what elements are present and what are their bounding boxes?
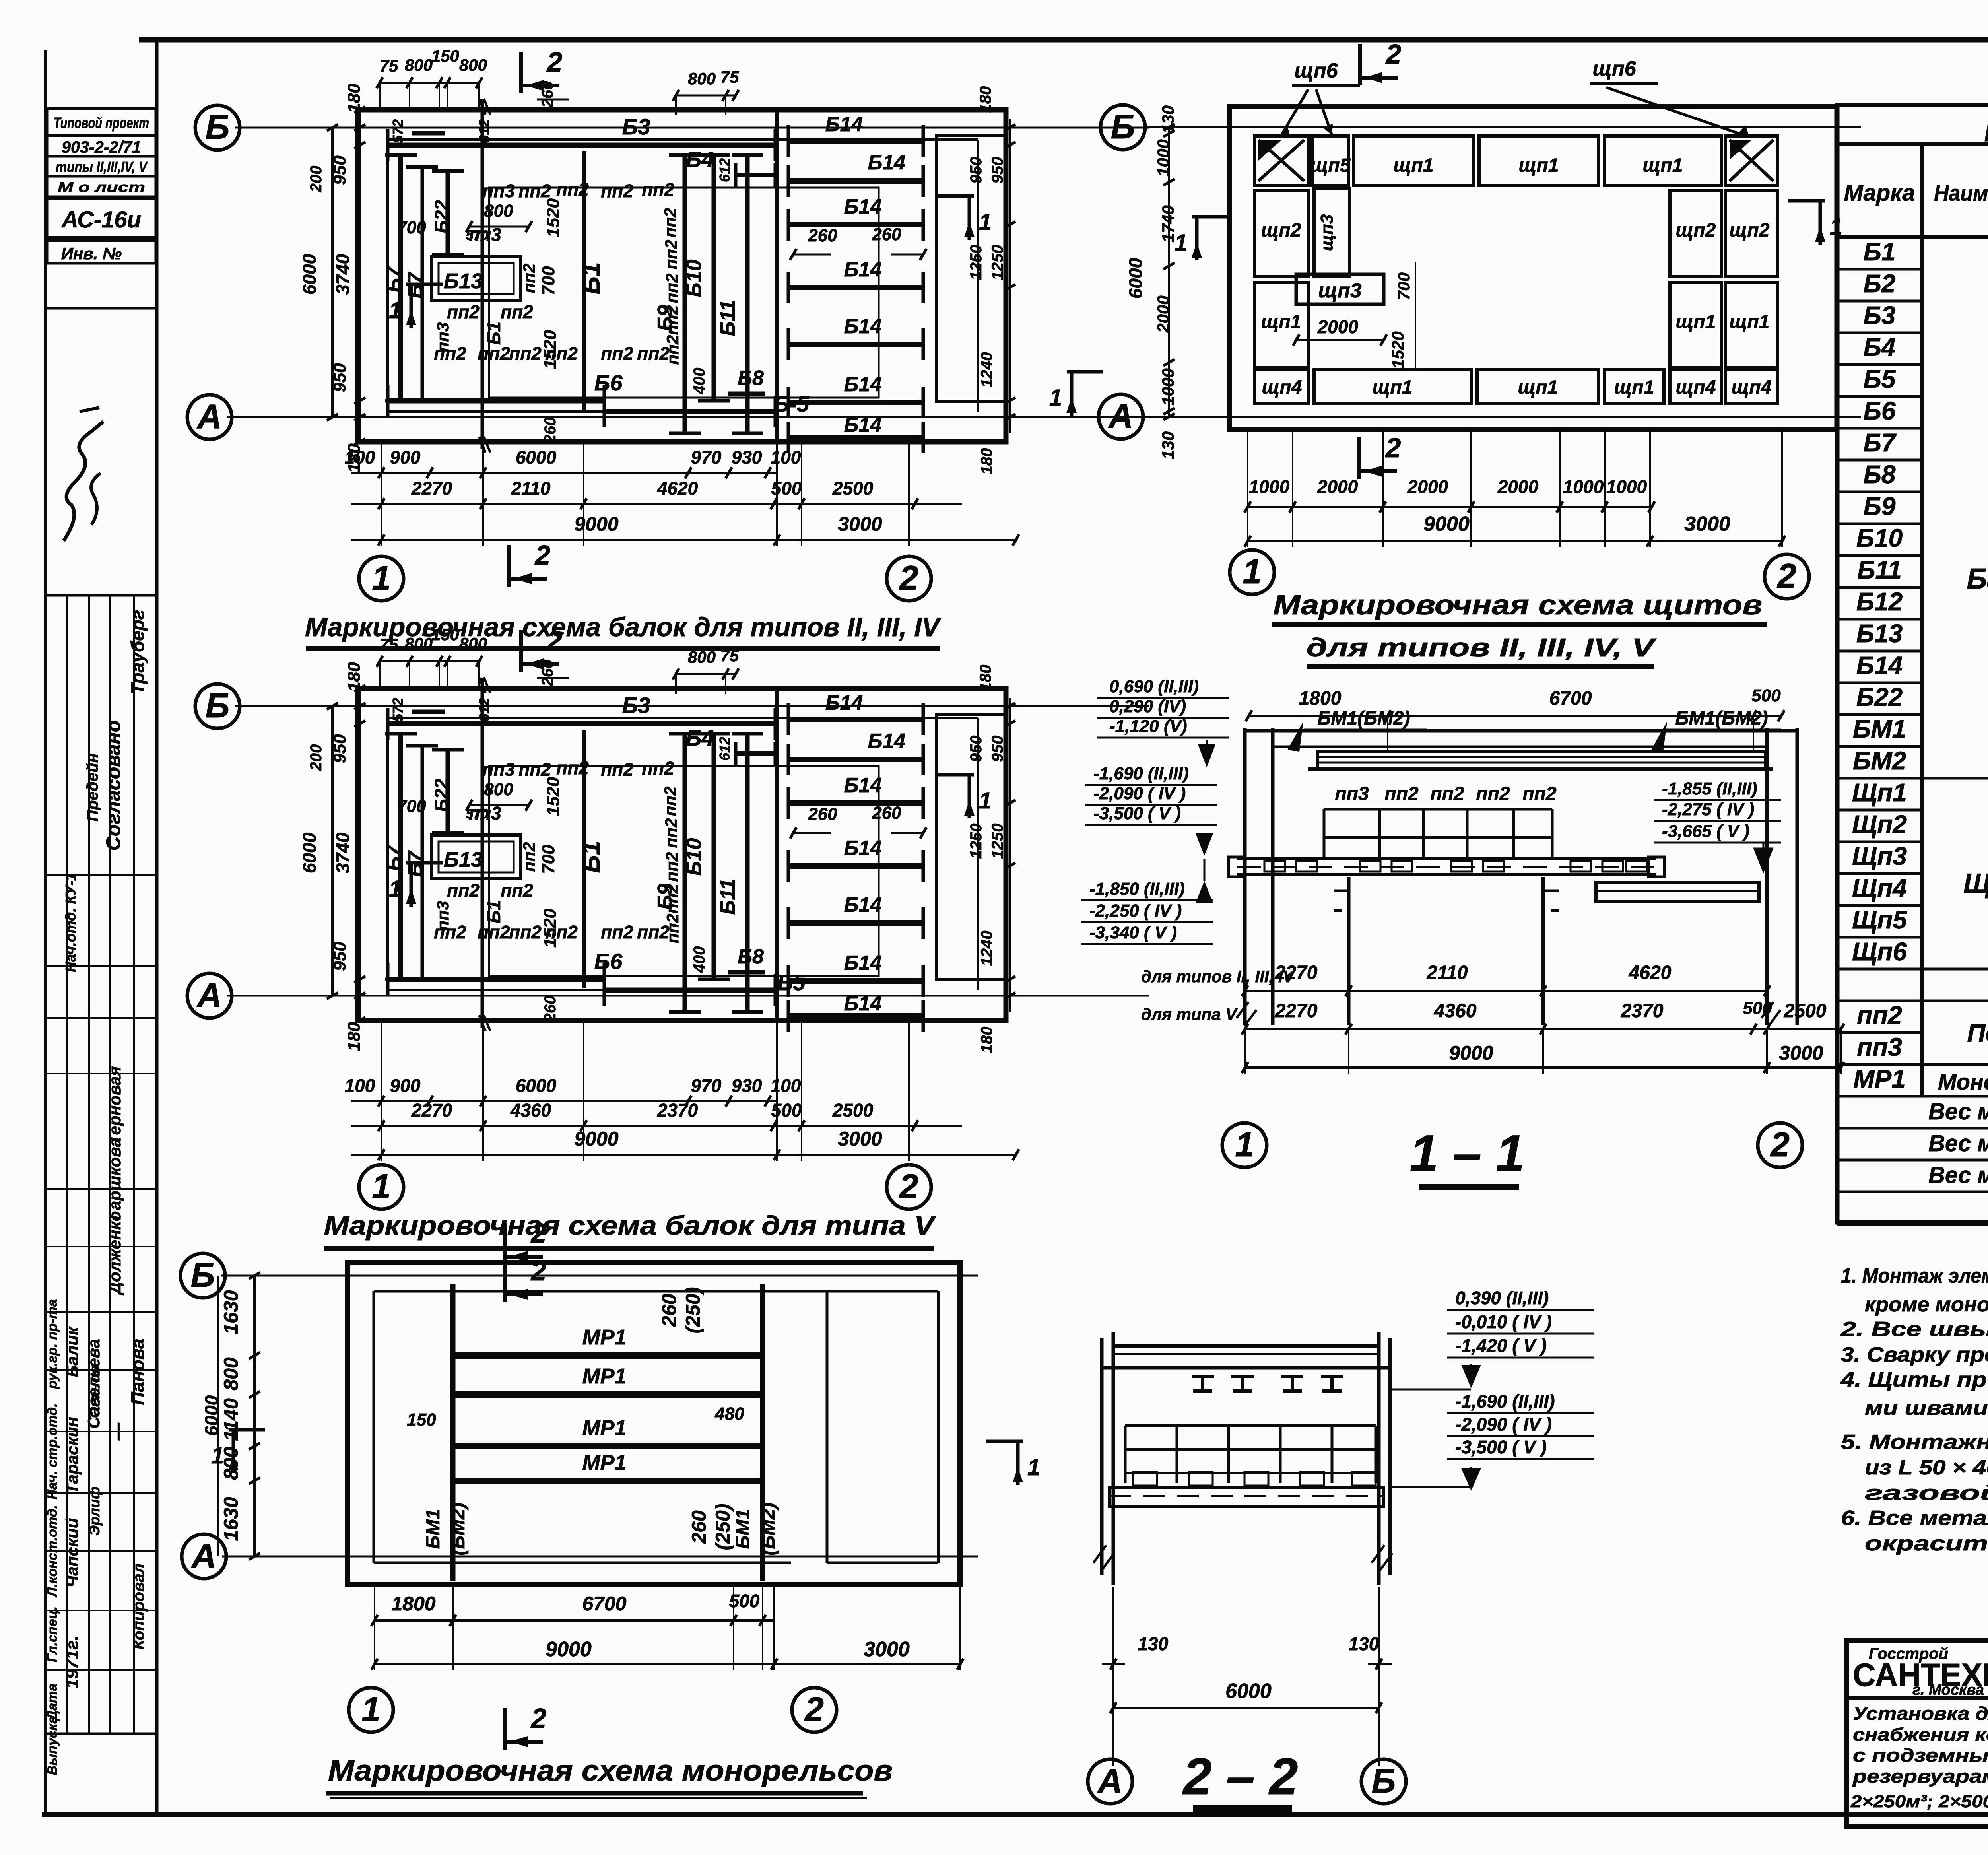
- svg-text:пп2: пп2: [509, 343, 542, 364]
- axis Б: [221, 1275, 978, 1277]
- rail grid: [1125, 1424, 1376, 1427]
- svg-text:Инв. №: Инв. №: [61, 244, 122, 263]
- svg-text:пп2: пп2: [1476, 783, 1510, 804]
- svg-text:6700: 6700: [1549, 688, 1592, 709]
- svg-text:-3,500 ( V ): -3,500 ( V ): [1455, 1437, 1547, 1457]
- svg-text:800: 800: [405, 56, 433, 74]
- corner diag left: [1258, 140, 1304, 181]
- svg-text:Б: Б: [1111, 108, 1135, 146]
- svg-text:4620: 4620: [1629, 962, 1672, 983]
- svg-text:Б14: Б14: [844, 952, 882, 975]
- svg-text:Б1: Б1: [483, 900, 504, 923]
- svg-text:130: 130: [1159, 105, 1177, 133]
- svg-text:Панова: Панова: [127, 1338, 148, 1405]
- svg-text:Б3: Б3: [622, 114, 650, 139]
- svg-text:Копировал: Копировал: [130, 1564, 148, 1650]
- svg-text:Б22: Б22: [1856, 683, 1903, 711]
- svg-text:пп2: пп2: [501, 301, 533, 322]
- svg-text:2: 2: [1385, 39, 1402, 70]
- svg-text:пп3: пп3: [482, 759, 515, 780]
- svg-text:1: 1: [979, 209, 992, 235]
- svg-text:Б14: Б14: [844, 837, 882, 860]
- svg-text:1800: 1800: [391, 1593, 435, 1615]
- svg-text:пп3: пп3: [1335, 783, 1369, 804]
- grid line: [481, 678, 484, 1028]
- svg-text:2: 2: [1385, 432, 1401, 463]
- bottom dim rows: [351, 1100, 777, 1102]
- svg-text:БМ1: БМ1: [732, 1509, 753, 1549]
- svg-text:пп2: пп2: [501, 880, 533, 901]
- opening Б13: [431, 256, 521, 300]
- svg-text:щп4: щп4: [1676, 377, 1716, 398]
- svg-text:130: 130: [1349, 1634, 1379, 1654]
- svg-text:903-2-2/71: 903-2-2/71: [62, 138, 141, 156]
- beam Б9: [683, 155, 687, 433]
- svg-text:1: 1: [1242, 553, 1262, 591]
- svg-text:612: 612: [716, 158, 733, 182]
- svg-text:Б14: Б14: [844, 373, 882, 396]
- svg-text:2: 2: [899, 559, 918, 597]
- svg-text:Б9: Б9: [1864, 492, 1896, 521]
- svg-text:800: 800: [688, 648, 716, 666]
- svg-text:-1,120 (V): -1,120 (V): [1109, 717, 1187, 736]
- svg-text:572: 572: [390, 119, 406, 143]
- beam Б11: [745, 734, 750, 1012]
- svg-text:-3,340 ( V ): -3,340 ( V ): [1089, 923, 1177, 942]
- svg-text:Дата: Дата: [45, 1684, 60, 1722]
- svg-text:БМ2: БМ2: [1853, 746, 1906, 775]
- svg-text:Б14: Б14: [868, 151, 906, 174]
- svg-text:Трауберг: Трауберг: [127, 610, 148, 695]
- svg-text:0,390 (II,III): 0,390 (II,III): [1455, 1288, 1549, 1308]
- svg-text:Марка: Марка: [1844, 180, 1915, 206]
- svg-text:2: 2: [534, 540, 551, 571]
- svg-text:пп2: пп2: [662, 305, 681, 335]
- left dim chain: [331, 128, 334, 417]
- svg-text:БМ1(БМ2): БМ1(БМ2): [1675, 708, 1768, 729]
- svg-text:2: 2: [530, 1218, 547, 1249]
- inner wall lines: [388, 717, 978, 719]
- table data rows: [1837, 237, 1988, 1110]
- svg-text:пп2: пп2: [447, 301, 480, 322]
- columns below floor: [1347, 877, 1351, 1025]
- svg-text:с подземными: с подземными: [1853, 1745, 1988, 1766]
- sidebar inner line: [155, 39, 159, 1814]
- svg-text:Долженко: Долженко: [105, 1211, 124, 1296]
- svg-text:150: 150: [431, 625, 459, 644]
- svg-text:800: 800: [220, 1357, 242, 1391]
- caption щитов: [1272, 589, 1767, 666]
- svg-text:Б1: Б1: [483, 322, 504, 345]
- floor band: [1109, 1487, 1384, 1506]
- svg-text:2270: 2270: [1275, 962, 1318, 983]
- svg-text:-1,690 (II,III): -1,690 (II,III): [1455, 1391, 1555, 1412]
- svg-text:Согласовано: Согласовано: [102, 720, 124, 851]
- svg-text:950: 950: [989, 736, 1006, 762]
- svg-text:из L 50 × 40 × 12 × 2,5 и: из L 50 × 40 × 12 × 2,5 и L 25 × 3 выпол…: [1865, 1456, 1988, 1479]
- beam plan diagram types II,III,IV: [187, 47, 1149, 601]
- svg-text:Б7: Б7: [382, 844, 406, 871]
- svg-text:пп3: пп3: [433, 322, 452, 352]
- svg-text:9000: 9000: [1423, 513, 1470, 536]
- svg-text:950: 950: [330, 155, 349, 185]
- svg-text:Щп4: Щп4: [1852, 874, 1907, 902]
- svg-text:Б5: Б5: [1864, 365, 1896, 393]
- top dims: [380, 660, 479, 662]
- svg-text:2500: 2500: [1784, 1000, 1827, 1022]
- beam Б5: [604, 409, 775, 414]
- svg-text:2. Все швы h = 6 мм .: 2. Все швы h = 6 мм .: [1840, 1318, 1988, 1341]
- svg-text:-2,275 ( IV ): -2,275 ( IV ): [1662, 800, 1754, 819]
- svg-text:пп2: пп2: [601, 922, 633, 942]
- caption diagram 1: [305, 540, 942, 648]
- svg-text:Б13: Б13: [1856, 619, 1903, 648]
- svg-text:пп3: пп3: [1857, 1033, 1902, 1061]
- axis circles 1 2: [349, 1688, 393, 1732]
- svg-text:кроме монорельсов, монтаж моно: кроме монорельсов, монтаж монорельсов ве…: [1865, 1293, 1988, 1316]
- svg-text:пп3: пп3: [433, 901, 452, 931]
- svg-text:6000: 6000: [1125, 258, 1146, 299]
- beam Б1: [582, 151, 586, 410]
- svg-text:А: А: [191, 1537, 216, 1575]
- caption diagram 2: [324, 1210, 937, 1302]
- railing grid: [1324, 808, 1552, 811]
- svg-text:щп1: щп1: [1394, 155, 1434, 176]
- svg-text:400: 400: [691, 368, 708, 395]
- svg-text:Установка для мазуто-: Установка для мазуто-: [1853, 1703, 1988, 1724]
- svg-text:пп2: пп2: [642, 179, 674, 200]
- svg-text:500: 500: [771, 1100, 802, 1121]
- svg-text:пп2: пп2: [1857, 1001, 1902, 1029]
- svg-text:1: 1: [1175, 230, 1187, 256]
- beam Б7b: [421, 746, 424, 979]
- svg-text:Б: Б: [191, 1256, 215, 1294]
- beam Б7: [398, 734, 403, 979]
- svg-text:612: 612: [716, 737, 733, 761]
- svg-text:500: 500: [1751, 686, 1781, 705]
- svg-text:1000: 1000: [1154, 139, 1173, 176]
- svg-text:180: 180: [344, 1022, 364, 1051]
- svg-text:570: 570: [466, 228, 489, 243]
- svg-text:180: 180: [977, 86, 994, 113]
- svg-text:260: 260: [808, 804, 837, 824]
- svg-text:Б14: Б14: [825, 113, 863, 136]
- svg-text:1: 1: [211, 1443, 224, 1468]
- left panels: [1254, 191, 1309, 276]
- svg-text:Маркировочная схема балок для: Маркировочная схема балок для типов II, …: [305, 612, 942, 642]
- svg-text:612: 612: [476, 698, 492, 722]
- svg-text:Б10: Б10: [683, 838, 706, 876]
- axis circles: [1088, 1759, 1132, 1804]
- svg-text:Б8: Б8: [1864, 460, 1896, 489]
- svg-text:Щиты: Щиты: [1963, 868, 1988, 899]
- svg-text:9000: 9000: [574, 1128, 618, 1150]
- svg-text:Б10: Б10: [683, 260, 706, 297]
- svg-text:2: 2: [899, 1167, 918, 1206]
- svg-text:150: 150: [431, 47, 459, 65]
- beam Б5: [604, 988, 775, 993]
- svg-text:Балки: Балки: [1967, 563, 1988, 595]
- svg-text:Гл.спец.: Гл.спец.: [45, 1606, 60, 1662]
- svg-text:130: 130: [1159, 431, 1177, 459]
- svg-text:щп3: щп3: [1318, 279, 1361, 302]
- svg-text:2000: 2000: [1317, 317, 1359, 337]
- svg-text:Б10: Б10: [1856, 524, 1903, 552]
- svg-text:Б14: Б14: [868, 730, 906, 753]
- svg-text:БМ1(БМ2): БМ1(БМ2): [1317, 708, 1410, 729]
- beam Б6: [388, 398, 604, 404]
- svg-text:5. Монтажные соединения элем: 5. Монтажные соединения элементов огражд…: [1841, 1431, 1988, 1454]
- svg-text:2: 2: [546, 625, 563, 656]
- svg-text:щп1: щп1: [1614, 377, 1654, 398]
- svg-text:-1,850 (II,III): -1,850 (II,III): [1089, 879, 1185, 899]
- svg-text:2: 2: [530, 1703, 547, 1734]
- panel boxes top row: [1254, 136, 1309, 186]
- svg-text:1520: 1520: [544, 777, 563, 816]
- svg-text:—: —: [108, 1422, 127, 1441]
- svg-text:800: 800: [405, 634, 433, 653]
- svg-text:пп2: пп2: [662, 240, 680, 270]
- title block: [1846, 1641, 1988, 1826]
- monorail beam БМ: [1318, 752, 1765, 768]
- svg-text:180: 180: [977, 665, 994, 691]
- svg-text:0,690 (II,III): 0,690 (II,III): [1109, 677, 1199, 696]
- svg-text:пп3: пп3: [482, 181, 515, 201]
- svg-text:1630: 1630: [220, 1497, 242, 1541]
- svg-text:930: 930: [732, 1075, 762, 1096]
- axis circles: [1230, 550, 1274, 594]
- svg-text:970: 970: [691, 447, 722, 468]
- svg-text:щп2: щп2: [1676, 220, 1716, 241]
- bottom row: [1254, 370, 1309, 404]
- bay divider wall: [775, 110, 779, 442]
- opening Б13: [431, 835, 521, 879]
- svg-text:Б14: Б14: [844, 992, 882, 1015]
- svg-text:щп5: щп5: [1310, 155, 1351, 176]
- svg-text:Б: Б: [206, 687, 230, 725]
- svg-text:БМ1: БМ1: [423, 1509, 444, 1549]
- svg-text:75: 75: [720, 68, 739, 86]
- svg-text:Терновая: Терновая: [105, 1066, 124, 1145]
- svg-text:Чапский: Чапский: [63, 1518, 82, 1588]
- svg-text:М о лист: М о лист: [58, 179, 145, 195]
- svg-text:газовой резки и сварки .: газовой резки и сварки .: [1865, 1482, 1988, 1505]
- svg-text:1971г.: 1971г.: [62, 1636, 82, 1688]
- beam Б22: [446, 750, 450, 833]
- svg-text:260: 260: [872, 803, 901, 823]
- svg-text:260: 260: [872, 225, 901, 244]
- top dims 1800 6700 500: [1249, 715, 1781, 717]
- svg-text:Б14: Б14: [844, 315, 882, 338]
- svg-text:типы II,III,IV, V: типы II,III,IV, V: [56, 159, 148, 175]
- svg-text:Б6: Б6: [594, 949, 623, 974]
- svg-text:Б7: Б7: [382, 266, 406, 293]
- svg-text:(БМ2): (БМ2): [758, 1503, 779, 1556]
- svg-text:480: 480: [714, 1404, 744, 1424]
- svg-text:260: 260: [542, 996, 559, 1023]
- svg-text:Монорельсы: Монорельсы: [1938, 1069, 1988, 1094]
- svg-text:пп2: пп2: [518, 181, 551, 201]
- svg-text:-2,250 ( IV ): -2,250 ( IV ): [1089, 901, 1182, 921]
- svg-text:9000: 9000: [574, 513, 618, 535]
- svg-text:3000: 3000: [864, 1638, 910, 1661]
- walls: [1100, 1338, 1104, 1575]
- svg-text:Щп3: Щп3: [1852, 842, 1907, 870]
- drawing frame border bottom: [42, 1812, 1988, 1817]
- svg-text:6000: 6000: [516, 1075, 557, 1096]
- svg-text:1: 1: [361, 1690, 381, 1729]
- sidebar stamp: project boxes: [47, 109, 156, 308]
- svg-text:-2,090 ( IV ): -2,090 ( IV ): [1093, 784, 1186, 803]
- svg-text:А: А: [1097, 1762, 1122, 1800]
- right wall section: [936, 136, 1007, 401]
- svg-text:-3,665 ( V ): -3,665 ( V ): [1662, 822, 1749, 841]
- beam Б10: [712, 155, 716, 401]
- svg-text:950: 950: [330, 942, 349, 971]
- svg-text:3740: 3740: [332, 832, 353, 873]
- svg-text:950: 950: [330, 734, 349, 763]
- svg-text:БМ1: БМ1: [1853, 715, 1906, 743]
- svg-text:пп2: пп2: [1430, 783, 1464, 804]
- axis circles 1 2: [359, 1165, 404, 1209]
- svg-text:1240: 1240: [978, 931, 996, 966]
- svg-text:572: 572: [390, 698, 406, 722]
- svg-text:для типов II, III, IV, V: для типов II, III, IV, V: [1307, 633, 1657, 662]
- svg-text:Вес монтажных швов: Вес монтажных швов: [1928, 1162, 1988, 1188]
- svg-text:Гаршкова: Гаршкова: [105, 1138, 124, 1220]
- svg-text:1: 1: [389, 876, 402, 902]
- svg-text:-1,420 ( V ): -1,420 ( V ): [1455, 1335, 1547, 1356]
- svg-text:200: 200: [307, 744, 325, 771]
- svg-text:9000: 9000: [1449, 1042, 1493, 1064]
- svg-text:пп2: пп2: [601, 181, 633, 201]
- svg-text:пп2: пп2: [518, 759, 551, 780]
- svg-text:Перила: Перила: [1967, 1019, 1988, 1047]
- svg-text:-3,500 ( V ): -3,500 ( V ): [1093, 804, 1181, 823]
- svg-text:Тараскин: Тараскин: [63, 1417, 82, 1494]
- inner wall lines: [388, 138, 978, 141]
- svg-text:А: А: [196, 976, 222, 1014]
- svg-text:100: 100: [771, 447, 801, 468]
- beam Б1: [582, 730, 586, 988]
- svg-text:Б: Б: [206, 108, 230, 146]
- svg-text:1250: 1250: [989, 245, 1006, 280]
- svg-text:900: 900: [390, 1075, 421, 1096]
- plan outer wall: [1229, 107, 1837, 429]
- svg-text:130: 130: [1138, 1634, 1169, 1654]
- svg-text:1: 1: [372, 1167, 391, 1206]
- svg-text:1250: 1250: [967, 245, 985, 280]
- svg-text:пп2: пп2: [662, 818, 680, 848]
- svg-text:Б14: Б14: [844, 258, 882, 281]
- plan outer wall: [348, 1263, 960, 1585]
- svg-text:Б: Б: [1372, 1762, 1396, 1800]
- svg-text:рук.гр. пр-та: рук.гр. пр-та: [45, 1299, 60, 1389]
- svg-text:Б22: Б22: [431, 200, 452, 233]
- svg-text:180: 180: [978, 448, 996, 475]
- svg-text:резервуарами 2×100м³: резервуарами 2×100м³: [1852, 1766, 1988, 1787]
- svg-text:1 – 1: 1 – 1: [1409, 1124, 1524, 1182]
- beam Б10: [712, 734, 716, 979]
- svg-text:Б4: Б4: [1864, 333, 1896, 361]
- grid line: [481, 99, 484, 449]
- svg-text:-1,690 (II,III): -1,690 (II,III): [1093, 764, 1189, 783]
- svg-text:700: 700: [397, 218, 426, 237]
- left dim chain: [331, 706, 334, 996]
- axis А: [227, 995, 1149, 997]
- svg-text:1: 1: [979, 788, 992, 814]
- svg-text:1: 1: [1235, 1126, 1254, 1164]
- svg-text:пп2: пп2: [556, 758, 589, 778]
- sidebar handwritten mark: [64, 422, 103, 541]
- svg-text:6700: 6700: [582, 1593, 626, 1615]
- walls: [1243, 728, 1247, 1025]
- svg-text:А: А: [196, 398, 222, 436]
- svg-text:пп2: пп2: [663, 914, 682, 944]
- svg-text:1000: 1000: [1159, 368, 1177, 405]
- svg-text:пп2: пп2: [1384, 783, 1419, 804]
- svg-text:570: 570: [466, 806, 489, 822]
- svg-text:щп2: щп2: [1261, 220, 1301, 241]
- svg-text:100: 100: [345, 447, 375, 468]
- svg-text:1520: 1520: [540, 330, 560, 369]
- svg-text:-2,090 ( IV ): -2,090 ( IV ): [1455, 1414, 1552, 1435]
- sidebar signature table: [47, 595, 157, 1734]
- svg-text:ми швами: ми швами: [1865, 1397, 1988, 1420]
- svg-text:Б11: Б11: [1857, 556, 1902, 584]
- sidebar rotated labels: [45, 610, 148, 1775]
- svg-text:(БМ2): (БМ2): [448, 1503, 469, 1556]
- svg-text:Б11: Б11: [716, 300, 740, 336]
- wall base breaks: [1237, 1002, 1780, 1026]
- beam Б9: [683, 734, 687, 1012]
- beams Б14: [788, 717, 923, 722]
- svg-text:Б22: Б22: [431, 779, 452, 812]
- svg-text:6000: 6000: [1225, 1680, 1272, 1703]
- right panels: [1726, 191, 1777, 276]
- svg-text:700: 700: [1394, 272, 1413, 300]
- section 2-2: [1088, 1288, 1594, 1804]
- svg-text:пп2: пп2: [478, 922, 510, 942]
- svg-text:Б12: Б12: [1856, 587, 1903, 616]
- svg-text:75: 75: [720, 646, 739, 665]
- svg-text:щп1: щп1: [1730, 311, 1770, 332]
- svg-text:800: 800: [459, 634, 487, 653]
- notes: Примечания: [1840, 1228, 1988, 1555]
- svg-text:1. Монтаж элементов производит: 1. Монтаж элементов производить на болта…: [1841, 1265, 1988, 1288]
- right wall section: [936, 714, 1007, 980]
- svg-text:Маркировочная схема балок для: Маркировочная схема балок для типа V: [324, 1210, 937, 1241]
- svg-text:пп2: пп2: [447, 880, 480, 901]
- bottom dim rows: [351, 472, 777, 474]
- axis circles 1 2: [359, 556, 404, 601]
- beam Б11: [745, 155, 750, 433]
- svg-text:700: 700: [397, 796, 426, 816]
- svg-text:6. Все металлические констр: 6. Все металлические конструкции перекры…: [1841, 1507, 1988, 1530]
- svg-text:800: 800: [484, 201, 513, 221]
- beam Б3: [388, 721, 775, 726]
- svg-text:1520: 1520: [1388, 331, 1407, 368]
- caption 2-2: [1182, 1747, 1298, 1808]
- svg-text:пп2: пп2: [662, 884, 681, 914]
- center щп3: [1296, 274, 1384, 304]
- svg-text:1000: 1000: [1563, 476, 1604, 497]
- monorail beams МР1: [453, 1352, 763, 1359]
- svg-text:260: 260: [658, 1294, 680, 1327]
- section 1-1: [1081, 677, 1844, 1167]
- svg-text:г. Москва: г. Москва: [1912, 1682, 1984, 1698]
- svg-text:пп2: пп2: [661, 208, 679, 238]
